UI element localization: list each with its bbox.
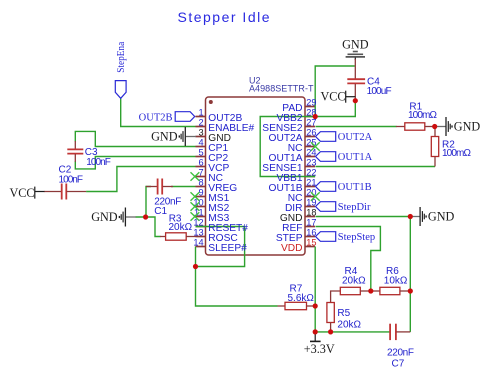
svg-text:2: 2: [198, 117, 203, 127]
svg-text:OUT2A: OUT2A: [338, 132, 373, 143]
svg-text:GND: GND: [428, 210, 455, 224]
pin 25 NC text: [288, 137, 317, 154]
pin 19 DIR (right): [305, 206, 315, 208]
pin 29 PAD text: [282, 97, 316, 114]
wire C3 bottom to pin5 CP2: [75, 157, 195, 169]
svg-text:5.6kΩ: 5.6kΩ: [288, 293, 315, 304]
svg-text:20kΩ: 20kΩ: [337, 319, 361, 330]
junction dot (355.3,100.7): [353, 98, 358, 103]
pin 25 NC (right): [305, 146, 315, 148]
junction dot (315.2,306): [313, 303, 318, 308]
pin 22 VBB1 text: [276, 167, 316, 184]
port flag OUT1B: [316, 182, 372, 193]
svg-text:100uF: 100uF: [367, 86, 392, 97]
svg-text:GND: GND: [91, 210, 118, 224]
svg-text:GND: GND: [454, 120, 481, 134]
net flag VCC (left): [10, 186, 45, 200]
wire pin28 up to GND/C4 lead: [315, 66, 355, 117]
svg-text:19: 19: [306, 197, 316, 207]
svg-text:14: 14: [193, 237, 203, 247]
pin 6 VCP (left): [196, 166, 206, 168]
wire pin28 right to VCC junction: [315, 101, 355, 117]
pin 27 SENSE2 text: [262, 117, 316, 134]
pin 16 STEP text: [276, 227, 317, 244]
pin 3 GND text: [198, 127, 230, 144]
resistor R5 20k (vertical): [327, 303, 334, 332]
svg-text:100mΩ: 100mΩ: [442, 148, 472, 159]
svg-text:17: 17: [306, 217, 316, 227]
junction dot (434.7,126.5): [432, 124, 437, 129]
pin 4 CP1 text: [198, 137, 228, 154]
capacitor C3 100nF (vertical): [67, 141, 83, 162]
pin 28 VBB2 text: [276, 107, 316, 124]
svg-text:StepEna: StepEna: [116, 42, 127, 73]
svg-text:100nF: 100nF: [86, 157, 111, 168]
pin 1 OUT2B (left): [196, 116, 206, 118]
pin 21 OUT1B text: [269, 177, 317, 194]
no-connect X at (194.9,216.5): [191, 212, 200, 220]
pin 17 REF (right): [305, 226, 315, 228]
svg-text:5: 5: [198, 147, 203, 157]
svg-text:12: 12: [193, 217, 203, 227]
pin 7 NC text: [198, 167, 223, 184]
pin 6 VCP text: [198, 157, 229, 174]
pin 13 ROSC (left): [196, 236, 206, 238]
pin 26 OUT2A (right): [305, 136, 315, 138]
net flag VCC (top): [321, 89, 356, 103]
wire GND junction to R3: [136, 217, 161, 237]
resistor R6 10k: [371, 287, 411, 294]
svg-text:VDD: VDD: [281, 243, 303, 254]
junction dot (330.6,331.9): [328, 329, 333, 334]
pin 10 MS2 text: [193, 197, 229, 214]
svg-text:26: 26: [306, 127, 316, 137]
pin 24 OUT1A (right): [305, 156, 315, 158]
svg-text:16: 16: [306, 227, 316, 237]
pin 12 RESET# (left): [196, 226, 206, 228]
svg-text:SLEEP#: SLEEP#: [208, 243, 247, 254]
pin 24 OUT1A text: [269, 147, 317, 164]
junction dot (315.2,116.5): [313, 114, 318, 119]
capacitor C4 100uF (vertical): [347, 59, 365, 101]
svg-text:OUT1A: OUT1A: [338, 152, 373, 163]
wire VBB2 pin28 to VBB1 pin22 through body: [260, 117, 315, 177]
svg-text:15: 15: [306, 237, 316, 247]
svg-text:StepStep: StepStep: [338, 232, 375, 243]
junction dot (410.3,216.5): [408, 214, 413, 219]
pin 26 OUT2A text: [269, 127, 317, 144]
wire C1 left to GND junction: [146, 187, 151, 218]
svg-text:220nF: 220nF: [387, 348, 414, 359]
pin 13 ROSC text: [193, 227, 237, 244]
svg-text:18: 18: [306, 207, 316, 217]
svg-text:20kΩ: 20kΩ: [169, 222, 193, 233]
svg-text:1: 1: [198, 107, 203, 117]
junction dot (410.3,291): [408, 288, 413, 293]
ground symbol near C1: [91, 208, 136, 227]
svg-text:GND: GND: [342, 38, 369, 52]
no-connect X at (315.3,146.5): [311, 142, 320, 150]
pin 29 PAD (right): [305, 106, 315, 108]
ground symbol at pin3 GND: [151, 127, 196, 146]
pin 16 STEP (right): [305, 236, 315, 238]
pin 12 RESET# text: [193, 217, 248, 234]
pin 9 MS1 text: [198, 187, 229, 204]
svg-text:22: 22: [306, 167, 316, 177]
capacitor C2 100nF (horizontal): [44, 184, 86, 200]
svg-text:+3.3V: +3.3V: [304, 342, 335, 356]
wire GND junction down to R6 right: [409, 217, 411, 292]
pin 14 SLEEP# text: [193, 237, 247, 254]
capacitor C1 220nF (horizontal): [146, 179, 173, 195]
pin 17 REF text: [282, 217, 316, 234]
wire pin18 GND to GND symbol: [316, 216, 411, 218]
wire pin27 SENSE2 to R1: [316, 126, 397, 128]
pin 7 NC (left): [196, 176, 206, 178]
svg-text:20kΩ: 20kΩ: [342, 276, 366, 287]
pin 9 MS1 (left): [196, 196, 206, 198]
svg-text:21: 21: [306, 177, 316, 187]
pin 28 VBB2 (right): [305, 116, 315, 118]
no-connect X at (194.9,206.5): [191, 202, 200, 210]
svg-text:GND: GND: [151, 130, 178, 144]
wire C2 to pin6 VCP: [86, 167, 195, 192]
svg-text:3: 3: [198, 127, 203, 137]
port flag OUT1A: [316, 152, 373, 163]
pin 15 VDD (right): [305, 246, 315, 248]
pin 11 MS3 text: [194, 207, 230, 224]
op-amp-like IC U2 A4988SETTR-T body: [206, 97, 306, 255]
power symbol +3.3V: [304, 332, 335, 356]
pin 5 CP2 (left): [196, 156, 206, 158]
capacitor C7 220nF (horizontal): [390, 324, 410, 340]
svg-text:13: 13: [193, 227, 203, 237]
junction dot (370.8,291): [368, 288, 373, 293]
svg-text:Stepper Idle: Stepper Idle: [178, 9, 272, 25]
pin 15 VDD text: [281, 237, 317, 254]
svg-text:6: 6: [198, 157, 203, 167]
wire pin12 RESET# loop to pin14 SLEEP#: [196, 227, 245, 267]
pin 3 GND (left): [196, 136, 206, 138]
pin 8 VREG text: [198, 177, 237, 194]
pin 21 OUT1B (right): [305, 186, 315, 188]
wire C1 right to pin8 VREG: [171, 186, 196, 188]
svg-text:StepDir: StepDir: [338, 202, 371, 213]
resistor R4 20k: [331, 287, 371, 302]
no-connect X at (194.9,176.5): [191, 172, 200, 180]
resistor R3 20k: [160, 233, 196, 240]
pin 18 GND (right): [305, 216, 315, 218]
wire C3 top to pin4 CP1: [75, 131, 195, 146]
pin 27 SENSE2 (right): [305, 126, 315, 128]
svg-text:A4988SETTR-T: A4988SETTR-T: [249, 84, 314, 94]
junction dot (145.6,217): [143, 214, 148, 219]
wire C7 right up to R6 junction: [409, 291, 411, 332]
wire StepEna to pin2 ENABLE#: [121, 98, 196, 126]
port flag StepDir: [316, 202, 371, 213]
port flag StepEna: [115, 42, 127, 99]
pin 2 ENABLE# (left): [196, 126, 206, 128]
earth ground symbol above C4: [342, 38, 369, 60]
svg-text:100mΩ: 100mΩ: [408, 110, 438, 121]
wire junction down to R7: [196, 267, 278, 307]
svg-text:29: 29: [306, 97, 316, 107]
svg-text:10kΩ: 10kΩ: [384, 276, 408, 287]
pin 1 OUT2B text: [198, 107, 242, 124]
svg-text:100nF: 100nF: [59, 174, 84, 185]
svg-text:24: 24: [306, 147, 316, 157]
ground symbol near R1: [435, 117, 481, 136]
pin 5 CP2 text: [198, 147, 228, 164]
svg-text:OUT1B: OUT1B: [338, 182, 372, 193]
pin 2 ENABLE# text: [198, 117, 254, 134]
svg-text:VCC: VCC: [321, 89, 346, 103]
wire pin14 SLEEP# down: [195, 247, 197, 267]
junction dot (195.5,266.5): [193, 264, 198, 269]
resistor R2 100mohm (vertical): [431, 127, 438, 167]
pin 10 MS2 (left): [196, 206, 206, 208]
pin 23 SENSE1 text: [262, 157, 316, 174]
ground symbol at pin18 GND: [410, 207, 454, 226]
resistor R7 5.6k: [278, 302, 316, 309]
port flag OUT2B: [139, 112, 195, 124]
svg-text:VCC: VCC: [10, 186, 35, 200]
pin 14 SLEEP# (left): [196, 246, 206, 248]
pin 20 NC (right): [305, 196, 315, 198]
pin 20 NC text: [288, 187, 317, 204]
junction dot (315.2,331.9): [313, 329, 318, 334]
wire pin17 REF to R4/R6 junction: [316, 227, 381, 292]
no-connect X at (315.3,196.5): [311, 192, 320, 200]
pin 18 GND text: [280, 207, 317, 224]
svg-text:8: 8: [198, 177, 203, 187]
wire +3.3V rail to C7: [315, 331, 389, 333]
no-connect X at (194.9,196.5): [191, 192, 200, 200]
wire pin23 SENSE1 to R2 bottom: [316, 166, 436, 168]
pin 22 VBB1 (right): [305, 176, 315, 178]
pin 8 VREG (left): [196, 186, 206, 188]
wire VDD pin15 down to +3.3V rail: [314, 247, 316, 332]
svg-text:R5: R5: [337, 308, 350, 319]
svg-text:OUT2B: OUT2B: [139, 112, 173, 123]
resistor R1 100mohm: [396, 123, 435, 130]
svg-text:C1: C1: [154, 206, 167, 217]
pin 19 DIR text: [285, 197, 317, 214]
port flag StepStep: [316, 232, 376, 243]
svg-text:4: 4: [198, 137, 203, 147]
pin 11 MS3 (left): [196, 216, 206, 218]
pin 23 SENSE1 (right): [305, 166, 315, 168]
pin 4 CP1 (left): [196, 146, 206, 148]
svg-text:23: 23: [306, 157, 316, 167]
svg-text:C7: C7: [392, 359, 405, 370]
port flag OUT2A: [316, 132, 373, 143]
